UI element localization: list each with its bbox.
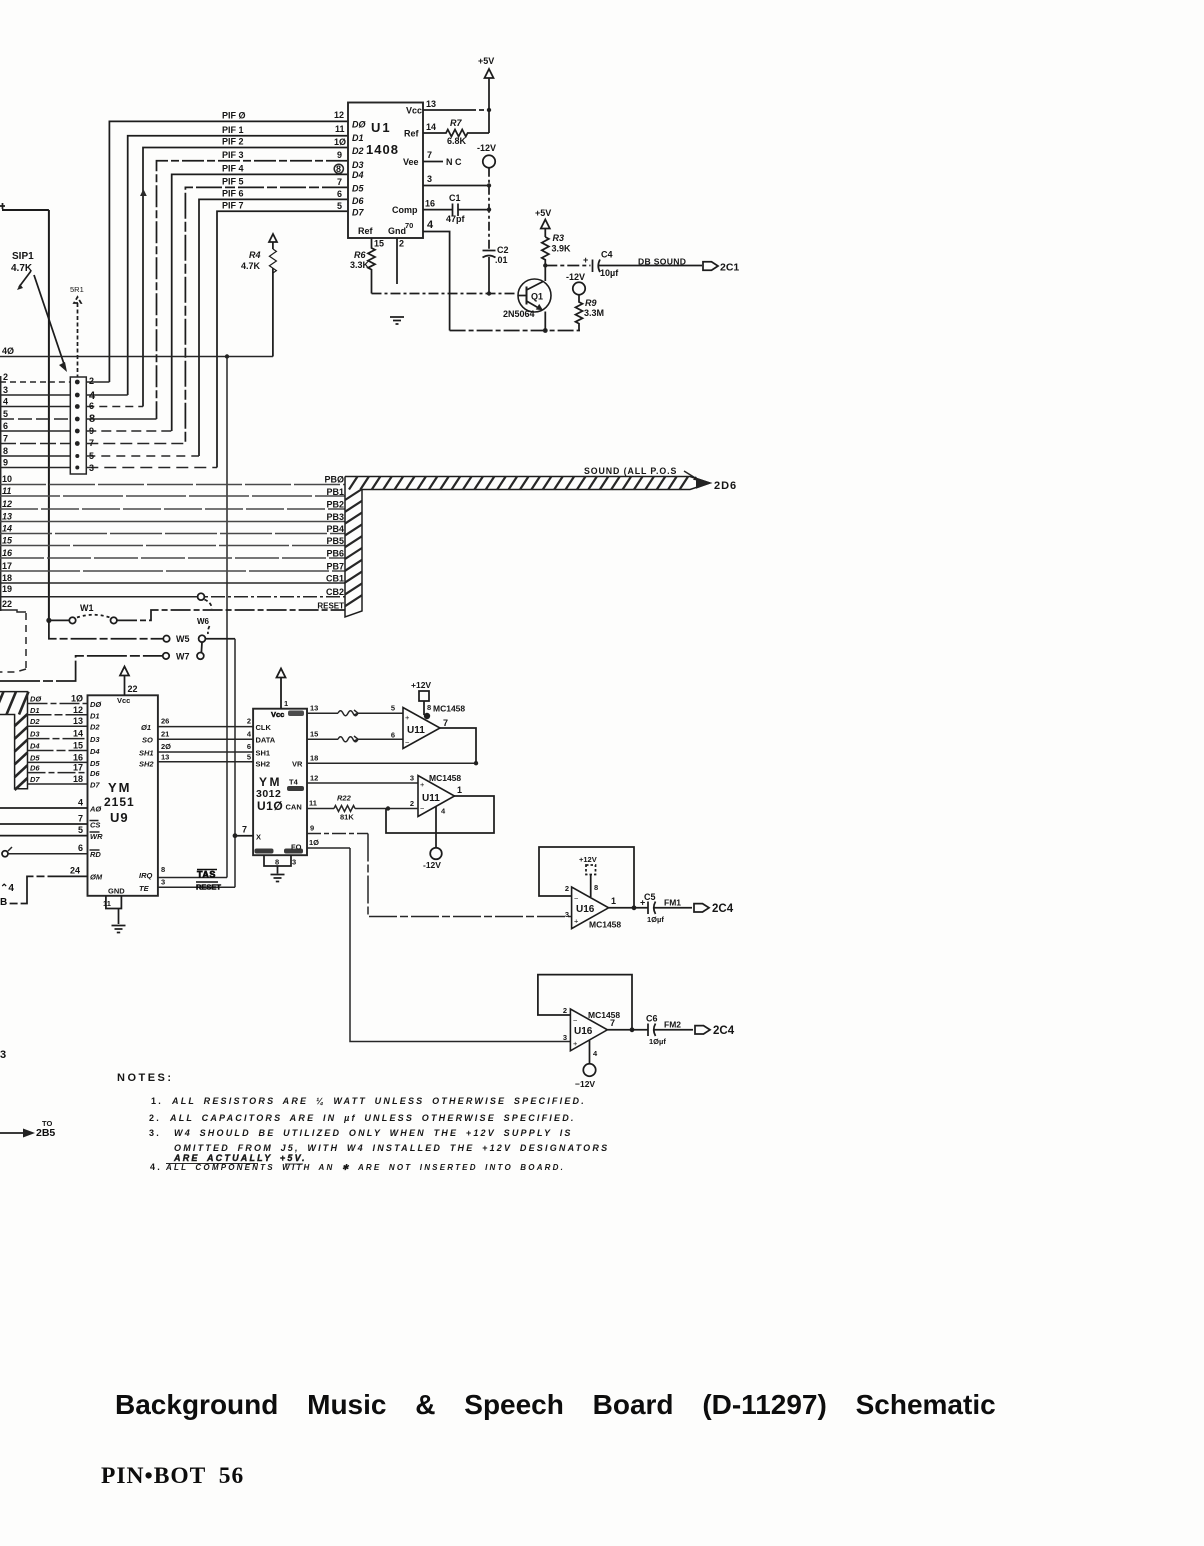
power +5V U9 (120, 667, 129, 696)
svg-text:SO: SO (142, 736, 153, 745)
svg-text:12: 12 (310, 773, 318, 782)
svg-text:9: 9 (337, 150, 342, 160)
svg-text:YM: YM (259, 775, 282, 789)
svg-text:Gnd: Gnd (388, 226, 406, 236)
svg-text:12: 12 (2, 499, 12, 509)
ground U10 (271, 875, 285, 882)
svg-text:16: 16 (2, 548, 13, 558)
svg-text:FM1: FM1 (664, 898, 681, 908)
svg-text:PB7: PB7 (326, 562, 344, 572)
svg-text:4.: 4. (150, 1162, 162, 1172)
svg-text:SIP1: SIP1 (12, 251, 34, 262)
svg-text:5: 5 (247, 752, 251, 761)
svg-text:DB SOUND: DB SOUND (638, 257, 686, 267)
svg-text:DATA: DATA (256, 736, 276, 745)
svg-text:18: 18 (2, 573, 12, 583)
svg-text:D7: D7 (30, 775, 40, 784)
pin TE 3 (158, 886, 235, 888)
svg-text:7: 7 (610, 1018, 615, 1028)
svg-text:2: 2 (3, 372, 8, 382)
svg-text:CAN: CAN (286, 803, 302, 812)
svg-text:ALL RESISTORS ARE ¼ WATT U: ALL RESISTORS ARE ¼ WATT UNLESS OTHERWIS… (171, 1096, 586, 1106)
svg-text:2B5: 2B5 (36, 1127, 55, 1139)
svg-text:D3: D3 (352, 160, 364, 170)
svg-text:AØ: AØ (89, 805, 102, 814)
svg-text:PIF 2: PIF 2 (222, 137, 244, 147)
wire vertical A row40 to U9 IRQ (226, 357, 228, 878)
svg-text:OMITTED FROM J5, WITH W4 IN: OMITTED FROM J5, WITH W4 INSTALLED THE +… (174, 1143, 609, 1153)
ground (390, 317, 404, 324)
svg-text:2.: 2. (149, 1113, 161, 1123)
svg-text:16: 16 (73, 752, 83, 762)
svg-text:1Øµf: 1Øµf (647, 915, 664, 924)
svg-text:D2: D2 (30, 717, 40, 726)
svg-text:ALL CAPACITORS ARE IN µf: ALL CAPACITORS ARE IN µf UNLESS OTHERWIS… (169, 1113, 576, 1123)
op-amp U11b MC1458 (418, 776, 455, 817)
svg-text:3: 3 (565, 910, 569, 919)
svg-text:ØM: ØM (90, 873, 103, 882)
wire U11b output feedback loop (386, 796, 494, 833)
svg-text:6: 6 (89, 401, 94, 411)
pin 12 T4 (307, 782, 418, 784)
svg-text:24: 24 (70, 866, 80, 876)
pin phi1 26 (158, 726, 253, 728)
svg-text:−12V: −12V (575, 1079, 595, 1089)
svg-text:6: 6 (337, 189, 342, 199)
svg-text:C6: C6 (646, 1014, 658, 1024)
svg-text:3: 3 (563, 1033, 567, 1042)
ferrite squiggle (338, 736, 358, 742)
svg-text:D4: D4 (30, 742, 40, 751)
svg-text:13: 13 (310, 704, 318, 713)
svg-text:-12V: -12V (423, 860, 441, 870)
svg-text:18: 18 (310, 753, 318, 762)
svg-text:17: 17 (2, 561, 12, 571)
wire WR pin5 (0, 835, 88, 837)
svg-text:5: 5 (391, 704, 395, 713)
svg-text:Vcc: Vcc (406, 106, 422, 116)
svg-text:C1: C1 (449, 193, 461, 203)
wire arrow to SIP package (34, 275, 64, 364)
svg-text:D1: D1 (30, 706, 40, 715)
svg-text:9: 9 (89, 426, 94, 436)
svg-text:GND: GND (108, 887, 125, 896)
svg-text:7: 7 (89, 438, 94, 448)
pin SH1 20 (158, 751, 253, 753)
svg-text:70: 70 (405, 221, 413, 230)
svg-text:2151: 2151 (104, 795, 135, 809)
svg-text:Vcc: Vcc (117, 696, 130, 705)
svg-text:11: 11 (309, 799, 317, 808)
svg-text:3: 3 (161, 878, 165, 887)
svg-text:2N5064: 2N5064 (503, 309, 535, 319)
svg-text:2C4: 2C4 (712, 903, 734, 915)
svg-text:15: 15 (2, 536, 13, 546)
svg-text:U16: U16 (574, 1026, 593, 1037)
svg-text:R4: R4 (249, 250, 261, 260)
svg-text:2D6: 2D6 (714, 480, 737, 492)
jumper W5 (49, 620, 163, 638)
svg-text:3.: 3. (149, 1128, 161, 1138)
svg-text:1.: 1. (151, 1096, 163, 1106)
svg-text:13: 13 (161, 752, 169, 761)
pin 13 to op-amp (307, 712, 403, 714)
svg-text:Ø1: Ø1 (141, 723, 151, 732)
svg-text:Comp: Comp (392, 205, 418, 215)
svg-text:14: 14 (426, 122, 436, 132)
svg-text:12: 12 (334, 110, 344, 120)
connector box 1J frame (2, 210, 49, 620)
wire phiM pin24 (8, 876, 88, 903)
wire vertical B W5 to U10/U9 (234, 639, 236, 888)
svg-text:FM2: FM2 (664, 1020, 681, 1030)
svg-text:−: − (574, 894, 579, 903)
svg-text:1Øµf: 1Øµf (649, 1037, 666, 1046)
svg-text:R22: R22 (337, 794, 352, 803)
svg-text:11: 11 (103, 899, 111, 908)
svg-text:SH1: SH1 (256, 748, 271, 757)
svg-text:B: B (0, 897, 7, 908)
wire D3 (28, 738, 88, 740)
svg-text:D6: D6 (352, 196, 364, 206)
svg-text:⌃4: ⌃4 (0, 883, 14, 894)
svg-text:8: 8 (161, 865, 165, 874)
svg-text:-12V: -12V (566, 272, 585, 282)
wire U16a output (609, 907, 648, 909)
svg-text:3: 3 (89, 463, 94, 473)
svg-text:C5: C5 (644, 892, 656, 902)
svg-text:PIF 3: PIF 3 (222, 150, 244, 160)
svg-text:10: 10 (2, 474, 12, 484)
svg-text:22: 22 (2, 599, 12, 609)
svg-text:13: 13 (426, 99, 436, 109)
svg-text:5: 5 (89, 451, 94, 461)
wire D7 (28, 783, 88, 785)
svg-text:+5V: +5V (478, 56, 494, 66)
wire U11a output feedback (440, 728, 476, 763)
DAC U10 YM3012 body (253, 709, 307, 856)
svg-text:21: 21 (161, 729, 169, 738)
svg-text:W7: W7 (176, 652, 190, 662)
svg-text:X: X (256, 833, 261, 842)
svg-text:.01: .01 (495, 255, 508, 265)
svg-text:MC1458: MC1458 (589, 920, 621, 930)
svg-text:2C1: 2C1 (720, 262, 739, 274)
svg-text:4: 4 (3, 397, 8, 407)
svg-text:PB2: PB2 (326, 500, 344, 510)
svg-text:19: 19 (2, 584, 12, 594)
svg-text:26: 26 (161, 717, 169, 726)
svg-text:4Ø: 4Ø (2, 346, 14, 356)
svg-text:6: 6 (3, 421, 8, 431)
svg-text:7: 7 (427, 150, 432, 160)
svg-text:D5: D5 (352, 184, 364, 194)
svg-text:9: 9 (310, 824, 314, 833)
svg-text:N C: N C (446, 157, 462, 167)
pin 4 -12V U16b (589, 1040, 591, 1064)
wire PIF0 (109, 121, 348, 382)
svg-text:7: 7 (443, 718, 448, 728)
svg-text:+5V: +5V (535, 208, 551, 218)
svg-text:CB2: CB2 (326, 587, 344, 597)
svg-text:D6: D6 (30, 764, 40, 773)
svg-text:PB1: PB1 (326, 487, 344, 497)
svg-text:11: 11 (335, 124, 345, 134)
svg-text:PB3: PB3 (326, 512, 344, 522)
svg-text:7: 7 (78, 814, 83, 824)
wire left edge of connector rows (0, 376, 2, 611)
svg-text:−: − (420, 804, 425, 813)
transistor Q1 2N5064 (518, 279, 551, 312)
sound CPU U9 YM2151 body (88, 695, 158, 896)
pointer to 2C4 lower (695, 1026, 710, 1034)
svg-text:8: 8 (427, 703, 431, 712)
svg-text:+12V: +12V (579, 855, 597, 864)
svg-text:TAS: TAS (197, 870, 216, 880)
svg-text:11: 11 (2, 486, 11, 496)
svg-text:PIF 1: PIF 1 (222, 125, 244, 135)
svg-text:-12V: -12V (477, 143, 496, 153)
svg-text:47pf: 47pf (446, 214, 466, 224)
svg-text:3.3K: 3.3K (350, 260, 370, 270)
svg-text:D5: D5 (30, 753, 40, 762)
pin IRQ 8 (158, 877, 227, 879)
svg-text:7: 7 (3, 434, 8, 444)
pin 10 FO to U16b (307, 847, 350, 849)
svg-text:MC1458: MC1458 (429, 773, 461, 783)
wire D5 (28, 761, 88, 763)
svg-text:1Ø: 1Ø (334, 137, 346, 147)
wire U16a feedback box (539, 847, 634, 908)
svg-text:13: 13 (73, 716, 83, 726)
svg-text:SOUND (ALL P.O.S: SOUND (ALL P.O.S (584, 466, 677, 476)
wire PIF1 (128, 136, 348, 395)
wire D0 (28, 703, 88, 705)
svg-text:13: 13 (2, 512, 12, 522)
svg-text:R6: R6 (354, 250, 366, 260)
svg-text:PB5: PB5 (326, 536, 344, 546)
svg-text:W4 SHOULD BE UTILIZED ONLY: W4 SHOULD BE UTILIZED ONLY WHEN THE +12V… (174, 1128, 573, 1138)
svg-text:6: 6 (78, 843, 83, 853)
wire D4 (28, 750, 88, 752)
svg-text:PIF Ø: PIF Ø (222, 111, 246, 121)
svg-text:9: 9 (3, 458, 8, 468)
svg-text:RESET: RESET (196, 883, 221, 892)
svg-text:D7: D7 (90, 781, 100, 790)
svg-text:8: 8 (89, 413, 95, 425)
pin 9 to U16a (307, 833, 368, 835)
svg-text:+: + (574, 917, 579, 926)
svg-text:1: 1 (284, 699, 288, 708)
svg-text:4: 4 (441, 807, 446, 816)
svg-text:TE: TE (139, 884, 150, 893)
wire PIF6 (199, 199, 348, 456)
svg-text:81K: 81K (340, 813, 354, 822)
svg-text:4.7K: 4.7K (241, 261, 261, 271)
wire PIF3 (157, 161, 349, 419)
wire PIF2 (143, 148, 348, 407)
svg-text:2Ø: 2Ø (161, 742, 171, 751)
svg-text:3: 3 (3, 385, 8, 395)
wire U16b output (607, 1029, 648, 1031)
wire R22 to inverting input (385, 808, 418, 810)
svg-text:CS: CS (90, 821, 100, 830)
svg-text:PIF 5: PIF 5 (222, 177, 244, 187)
svg-text:NOTES:: NOTES: (117, 1072, 174, 1084)
svg-text:+12V: +12V (411, 680, 431, 690)
svg-text:3.9K: 3.9K (552, 244, 572, 254)
svg-text:2: 2 (563, 1006, 567, 1015)
svg-text:14: 14 (73, 729, 83, 739)
svg-text:W1: W1 (80, 603, 94, 613)
svg-text:T4: T4 (289, 778, 299, 787)
svg-text:Ref: Ref (404, 129, 420, 139)
svg-text:5: 5 (337, 201, 342, 211)
svg-text:W5: W5 (176, 634, 190, 644)
ferrite squiggle (338, 710, 358, 716)
svg-text:10µf: 10µf (600, 268, 619, 278)
svg-text:6: 6 (247, 742, 251, 751)
svg-text:PBØ: PBØ (324, 475, 344, 485)
svg-text:18: 18 (73, 774, 83, 784)
svg-text:MC1458: MC1458 (588, 1010, 620, 1020)
capacitor C4 10uf (545, 265, 590, 267)
pointer to 2C4 upper (694, 904, 709, 912)
svg-text:D6: D6 (90, 769, 100, 778)
wire D2 (28, 725, 88, 727)
svg-text:6.8K: 6.8K (447, 136, 467, 146)
svg-text:R3: R3 (553, 233, 565, 243)
svg-text:1408: 1408 (366, 142, 399, 157)
svg-text:2: 2 (410, 799, 414, 808)
svg-text:1: 1 (611, 896, 616, 906)
svg-text:ARE ACTUALLY +5V.: ARE ACTUALLY +5V. (173, 1153, 307, 1163)
svg-text:D2: D2 (352, 146, 364, 156)
bus hatched data stub to U9 (0, 692, 28, 789)
svg-text:16: 16 (425, 199, 435, 209)
svg-text:+: + (573, 1039, 578, 1048)
svg-text:U9: U9 (110, 810, 129, 825)
svg-text:+: + (420, 780, 425, 789)
svg-text:3.3M: 3.3M (584, 308, 604, 318)
wire RD pin6 (2, 851, 8, 857)
svg-text:D1: D1 (90, 711, 100, 720)
svg-text:Q1: Q1 (531, 292, 543, 302)
svg-text:−: − (405, 738, 410, 747)
svg-text:D4: D4 (90, 747, 100, 756)
svg-text:5: 5 (78, 825, 83, 835)
svg-text:YM: YM (108, 780, 132, 795)
svg-text:5: 5 (3, 409, 8, 419)
wire arrow to upper-left (19, 271, 31, 287)
svg-text:D3: D3 (90, 735, 100, 744)
svg-text:SH2: SH2 (139, 760, 154, 769)
svg-text:R7: R7 (450, 118, 462, 128)
pointer to 2C1 (703, 262, 718, 270)
svg-text:7: 7 (242, 825, 247, 835)
svg-text:VR: VR (292, 760, 303, 769)
svg-text:5R1: 5R1 (70, 285, 84, 294)
op-amp U11a MC1458 (403, 708, 440, 749)
bus hatched horizontal to 2D6 (345, 477, 710, 490)
svg-text:7: 7 (337, 177, 342, 187)
svg-text:D5: D5 (90, 759, 100, 768)
svg-text:2: 2 (89, 376, 94, 386)
svg-text:−: − (573, 1016, 578, 1025)
svg-text:2C4: 2C4 (713, 1025, 735, 1037)
svg-text:+: + (583, 255, 588, 265)
svg-text:D2: D2 (90, 723, 100, 732)
ground U9 (112, 926, 126, 933)
svg-text:CLK: CLK (256, 723, 272, 732)
wire U16b feedback box (538, 975, 632, 1030)
svg-text:4: 4 (593, 1049, 598, 1058)
wire PIF7 (217, 211, 348, 467)
svg-text:RD: RD (90, 850, 101, 859)
svg-text:C4: C4 (601, 250, 613, 260)
svg-text:PIF 6: PIF 6 (222, 189, 244, 199)
svg-text:D4: D4 (352, 170, 364, 180)
DAC U1 MC1408 body (348, 103, 423, 239)
svg-text:U1Ø: U1Ø (257, 799, 283, 813)
wire U10 pin10 route to U16b (350, 848, 570, 1042)
svg-text:3: 3 (292, 858, 296, 867)
bus hatched vertical (345, 477, 362, 618)
svg-text:4: 4 (427, 219, 434, 231)
wire CS pin7 (0, 823, 88, 825)
svg-text:22: 22 (128, 684, 138, 694)
svg-text:17: 17 (73, 763, 83, 773)
svg-text:15: 15 (73, 741, 83, 751)
svg-text:2: 2 (399, 239, 404, 249)
svg-text:PIF 4: PIF 4 (222, 164, 244, 174)
op-amp U16b MC1458 (570, 1009, 607, 1051)
pin 4 -12V U11b (435, 807, 437, 849)
pin 11 CAN to R22 (307, 808, 334, 810)
op-amp U16a MC1458 (572, 887, 609, 929)
svg-text:4: 4 (247, 729, 252, 738)
svg-text:14: 14 (2, 524, 12, 534)
svg-text:2: 2 (565, 884, 569, 893)
pin 15 to op-amp (307, 738, 403, 740)
svg-text:U11: U11 (422, 793, 440, 804)
svg-text:IRQ: IRQ (139, 871, 153, 880)
svg-text:1Ø: 1Ø (309, 838, 319, 847)
svg-text:15: 15 (310, 730, 318, 739)
svg-text:D3: D3 (30, 730, 40, 739)
svg-text:DØ: DØ (90, 700, 102, 709)
pin 18 VR feedback rail (307, 762, 476, 764)
svg-text:SH1: SH1 (139, 748, 154, 757)
wire D6 (28, 772, 88, 774)
jumper W1 (46, 618, 51, 623)
svg-text:U11: U11 (407, 725, 425, 736)
svg-text:W6: W6 (197, 617, 210, 626)
svg-text:8: 8 (275, 858, 279, 867)
svg-text:8: 8 (3, 446, 8, 456)
jumper W7 (0, 656, 163, 681)
svg-text:PB6: PB6 (326, 549, 344, 559)
svg-text:Ref: Ref (358, 226, 374, 236)
svg-text:DØ: DØ (352, 120, 366, 130)
svg-text:D7: D7 (352, 208, 364, 218)
svg-text:6: 6 (391, 731, 395, 740)
svg-text:12: 12 (73, 705, 83, 715)
svg-text:U16: U16 (576, 904, 595, 915)
jumper W6 (198, 593, 205, 600)
svg-text:PB4: PB4 (326, 524, 344, 534)
svg-text:ALL COMPONENTS WITH AN ✱ A: ALL COMPONENTS WITH AN ✱ ARE NOT INSERTE… (165, 1163, 565, 1172)
